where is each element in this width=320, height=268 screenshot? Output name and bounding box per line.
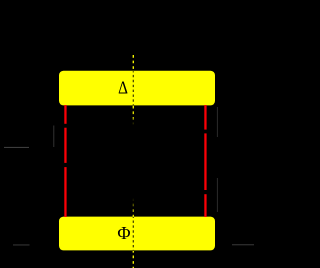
faint fermion line right outer lower — [217, 178, 218, 212]
faint external leg left lower dash — [13, 244, 30, 245]
vertex blob Phi (bottom yellow box) — [59, 217, 215, 251]
arrowhead on left red line (upper) — [64, 124, 70, 128]
arrowhead on right red line (lower) — [203, 190, 209, 194]
arrowhead on left red line (lower) — [64, 163, 70, 167]
dashed cut line: over top box (dark) — [132, 71, 134, 105]
faint fermion line left outer — [53, 126, 54, 148]
arrowhead on right red line (upper) — [203, 130, 209, 134]
propagator right (red line) — [204, 105, 206, 217]
faint fermion line right outer upper — [217, 107, 218, 137]
dashed cut line: below top box fading out (yellow) — [132, 106, 134, 125]
faint external leg left upper dash — [4, 147, 29, 148]
propagator left (red line) — [64, 105, 66, 217]
dashed cut line: over bottom box (dark) — [132, 217, 134, 250]
svg-text:Δ: Δ — [118, 77, 128, 98]
vertex blob Delta (top yellow box) — [59, 71, 215, 106]
dashed cut line: below bottom box (yellow) — [132, 251, 134, 268]
dashed cut line: segment above top box (yellow) — [132, 55, 134, 71]
svg-text:Φ: Φ — [117, 223, 130, 243]
dashed cut line: above bottom box fading in (yellow) — [132, 198, 134, 217]
faint external leg right lower dash — [232, 244, 254, 245]
